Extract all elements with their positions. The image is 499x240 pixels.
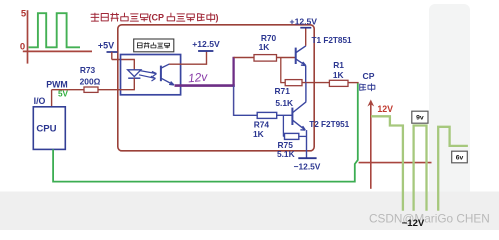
svg-text:R74: R74 [254, 120, 270, 130]
wire rail to T1 base [234, 57, 295, 59]
wire Q1 emitter riser [305, 66, 307, 83]
svg-text:PWM: PWM [46, 80, 68, 90]
svg-text:12V: 12V [377, 104, 393, 114]
svg-text:1K: 1K [333, 70, 344, 80]
svg-text:R1: R1 [333, 60, 344, 70]
LED light arrow 2 [139, 75, 156, 81]
wire R73 to LED [98, 89, 135, 91]
svg-text:I/O: I/O [34, 96, 46, 106]
PWM waveform horizontal axis [23, 50, 92, 52]
LED light arrow 1 [140, 71, 157, 77]
svg-text:T1 F2T851: T1 F2T851 [312, 36, 352, 45]
transistor Q1 emitter diag [296, 59, 306, 65]
resistor R71 [285, 80, 302, 86]
phototransistor collector [161, 64, 169, 68]
resistor R74 [257, 112, 277, 118]
svg-text:9v: 9v [416, 115, 424, 122]
optocoupler label box [134, 39, 174, 52]
wire rail down navy [233, 86, 235, 116]
wire LED cathode drop [133, 78, 135, 90]
transistor Q2 base bar [291, 108, 293, 125]
svg-text:+12.5V: +12.5V [192, 39, 220, 49]
CPU box [33, 107, 65, 150]
power -12.5V bar [298, 157, 316, 159]
wire +5V to LED [112, 59, 135, 61]
wire Q2 collector riser [305, 83, 307, 102]
CP waveform axis arrowhead [367, 100, 374, 107]
wire feedback loop rectangle [118, 25, 314, 151]
wire rail to R74 [234, 114, 258, 116]
title text 输出 [198, 14, 205, 21]
title text 控制导引电路 [91, 13, 99, 21]
wire R75 left stub [283, 135, 284, 137]
wire green bus [53, 83, 358, 182]
LED D1 triangle [128, 70, 141, 77]
wire R71 to R1 [302, 82, 329, 84]
wire PWM to R73 [52, 89, 84, 91]
title text 占空比 [167, 13, 174, 21]
optocoupler label text 光敏三极管 [137, 43, 142, 48]
wire PWM up [51, 90, 53, 107]
transistor Q1 collector diag [296, 46, 306, 53]
wire R1 to CP [348, 82, 359, 84]
svg-text:R73: R73 [80, 65, 96, 75]
wire purple rail up [232, 57, 234, 87]
power +12.5V top bar [300, 27, 311, 29]
power +12.5V mid bar [198, 50, 213, 52]
label box 9v [412, 111, 428, 123]
CP waveform vertical axis [370, 102, 372, 189]
label CP 输出 [360, 84, 366, 90]
resistor R75 [285, 133, 299, 139]
svg-text:(CP: (CP [149, 12, 165, 22]
svg-text:+12.5V: +12.5V [290, 17, 318, 27]
svg-text:): ) [216, 12, 219, 22]
CP waveform trace 2 [414, 126, 427, 211]
label box 6v [452, 151, 468, 163]
background gray strip right [429, 4, 470, 230]
PWM waveform vertical axis [27, 10, 29, 63]
CP waveform horizontal axis [359, 162, 432, 164]
wire Q2 emitter down [306, 130, 308, 158]
transistor Q1 base bar [295, 48, 297, 64]
wire R71 left stub [281, 82, 285, 84]
resistor R70 [254, 55, 277, 62]
resistor R73 [84, 87, 98, 92]
transistor Q2 collector diag [293, 102, 306, 113]
phototransistor emitter [161, 78, 174, 85]
svg-text:12v: 12v [187, 70, 208, 86]
wire +5V down [111, 52, 113, 60]
transistor Q2 emitter diag [293, 120, 306, 130]
svg-text:1K: 1K [253, 129, 264, 139]
svg-text:5V: 5V [58, 89, 69, 98]
svg-text:CPU: CPU [36, 124, 56, 135]
svg-text:CP: CP [363, 71, 375, 81]
wire R75 to emitter [299, 135, 307, 137]
CP waveform trace 3 [438, 127, 468, 211]
svg-text:5.1K: 5.1K [275, 98, 293, 108]
CP waveform trace 1 [371, 116, 403, 211]
svg-text:6v: 6v [456, 154, 464, 161]
wire LED anode drop [133, 60, 135, 71]
optocoupler box U1 [121, 55, 181, 95]
svg-text:R71: R71 [275, 86, 291, 96]
phototransistor bar [160, 66, 162, 82]
wire collector to +12.5V [169, 52, 206, 65]
power +5V rail bar [107, 51, 118, 53]
svg-text:−12.5V: −12.5V [294, 162, 321, 172]
svg-text:T2 F2T951: T2 F2T951 [309, 120, 349, 129]
svg-text:CSDN@MariGo CHEN: CSDN@MariGo CHEN [369, 211, 490, 225]
svg-text:0: 0 [20, 41, 25, 52]
svg-text:+5V: +5V [98, 40, 114, 50]
wire base drop to R71 [280, 58, 282, 84]
svg-text:−12V: −12V [402, 218, 425, 229]
svg-text:200Ω: 200Ω [80, 77, 101, 87]
wire R74 to T2 base [277, 114, 293, 116]
resistor R1 [329, 80, 348, 86]
PWM waveform trace [29, 13, 80, 47]
LED D1 cathode bar [128, 77, 140, 79]
wire base drop to R75 [282, 115, 284, 136]
svg-text:5: 5 [21, 8, 27, 19]
wire emitter purple horizontal [175, 84, 235, 87]
background bottom band [0, 192, 499, 231]
wire Q1 collector riser [305, 28, 307, 46]
svg-text:5.1K: 5.1K [277, 149, 295, 159]
svg-text:1K: 1K [259, 42, 270, 52]
